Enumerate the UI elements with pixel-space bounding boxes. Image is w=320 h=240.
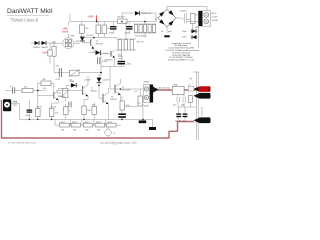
svg-text:4700u: 4700u [125,33,132,35]
svg-text:+0.65V: +0.65V [50,106,57,108]
svg-text:fused: fused [62,30,69,33]
svg-text:2R2 5W: 2R2 5W [117,17,125,19]
svg-text:0R22: 0R22 [61,122,67,124]
svg-text:0R22: 0R22 [108,122,114,124]
svg-text:5W: 5W [85,130,88,132]
svg-text:chassis 0V: chassis 0V [202,106,204,116]
svg-text:4-8R: 4-8R [144,106,149,108]
svg-text:10R: 10R [92,105,96,107]
svg-text:+24V: +24V [75,41,81,43]
svg-text:2SC5200: 2SC5200 [122,89,132,91]
svg-text:BD911: BD911 [91,90,98,92]
svg-text:input: input [13,104,18,107]
svg-text:+38V: +38V [88,15,94,18]
svg-text:10R: 10R [87,110,91,112]
svg-text:2x24V: 2x24V [212,16,219,18]
svg-text:5W: 5W [73,130,76,132]
svg-text:75Watt Class-B: 75Watt Class-B [10,18,39,23]
svg-text:uri.x000@gmail.com 200: uri.x000@gmail.com 200 [100,141,137,145]
svg-text:BD912: BD912 [111,99,118,101]
svg-text:T10A: T10A [173,83,179,86]
svg-text:150VA: 150VA [212,19,219,22]
svg-text:0R22: 0R22 [72,122,78,124]
svg-text:ZD 9V1: ZD 9V1 [87,35,95,37]
svg-text:+29.5V: +29.5V [36,106,43,108]
svg-text:10R: 10R [181,105,185,107]
svg-text:5W: 5W [97,130,100,132]
svg-text:2N5504: 2N5504 [96,43,104,45]
svg-text:(C)2003 DaniWATT rev 2.0b: (C)2003 DaniWATT rev 2.0b [168,59,195,62]
svg-text:+1.3V: +1.3V [55,79,61,81]
svg-text:e-mail: danios.input.com: e-mail: danios.input.com [8,140,36,144]
svg-text:AC in: AC in [212,12,218,15]
svg-text:+35.2V: +35.2V [84,80,91,82]
svg-text:47k 1W: 47k 1W [137,42,144,44]
svg-text:0R22: 0R22 [84,122,90,124]
svg-text:MJE350: MJE350 [105,60,113,62]
svg-text:4700u: 4700u [109,33,116,35]
svg-text:SPKR: SPKR [144,82,150,84]
svg-text:1N4007 1N4007: 1N4007 1N4007 [33,47,49,49]
svg-text:2SA970: 2SA970 [58,95,66,98]
svg-text:0R22: 0R22 [96,122,102,124]
svg-text:cable 10m (tw): cable 10m (tw) [157,87,171,90]
svg-text:10000u: 10000u [180,11,188,13]
svg-text:DaniWATT MkII: DaniWATT MkII [7,8,53,15]
svg-text:1N4007-09: 1N4007-09 [141,13,152,15]
svg-text:LED: LED [195,27,200,29]
svg-text:10u 63: 10u 63 [175,120,182,122]
svg-text:10k 0.6W x5: 10k 0.6W x5 [135,36,147,38]
svg-text:+0.65V: +0.65V [103,80,110,82]
svg-text:+ret: +ret [137,102,141,105]
svg-text:5W: 5W [61,130,64,132]
